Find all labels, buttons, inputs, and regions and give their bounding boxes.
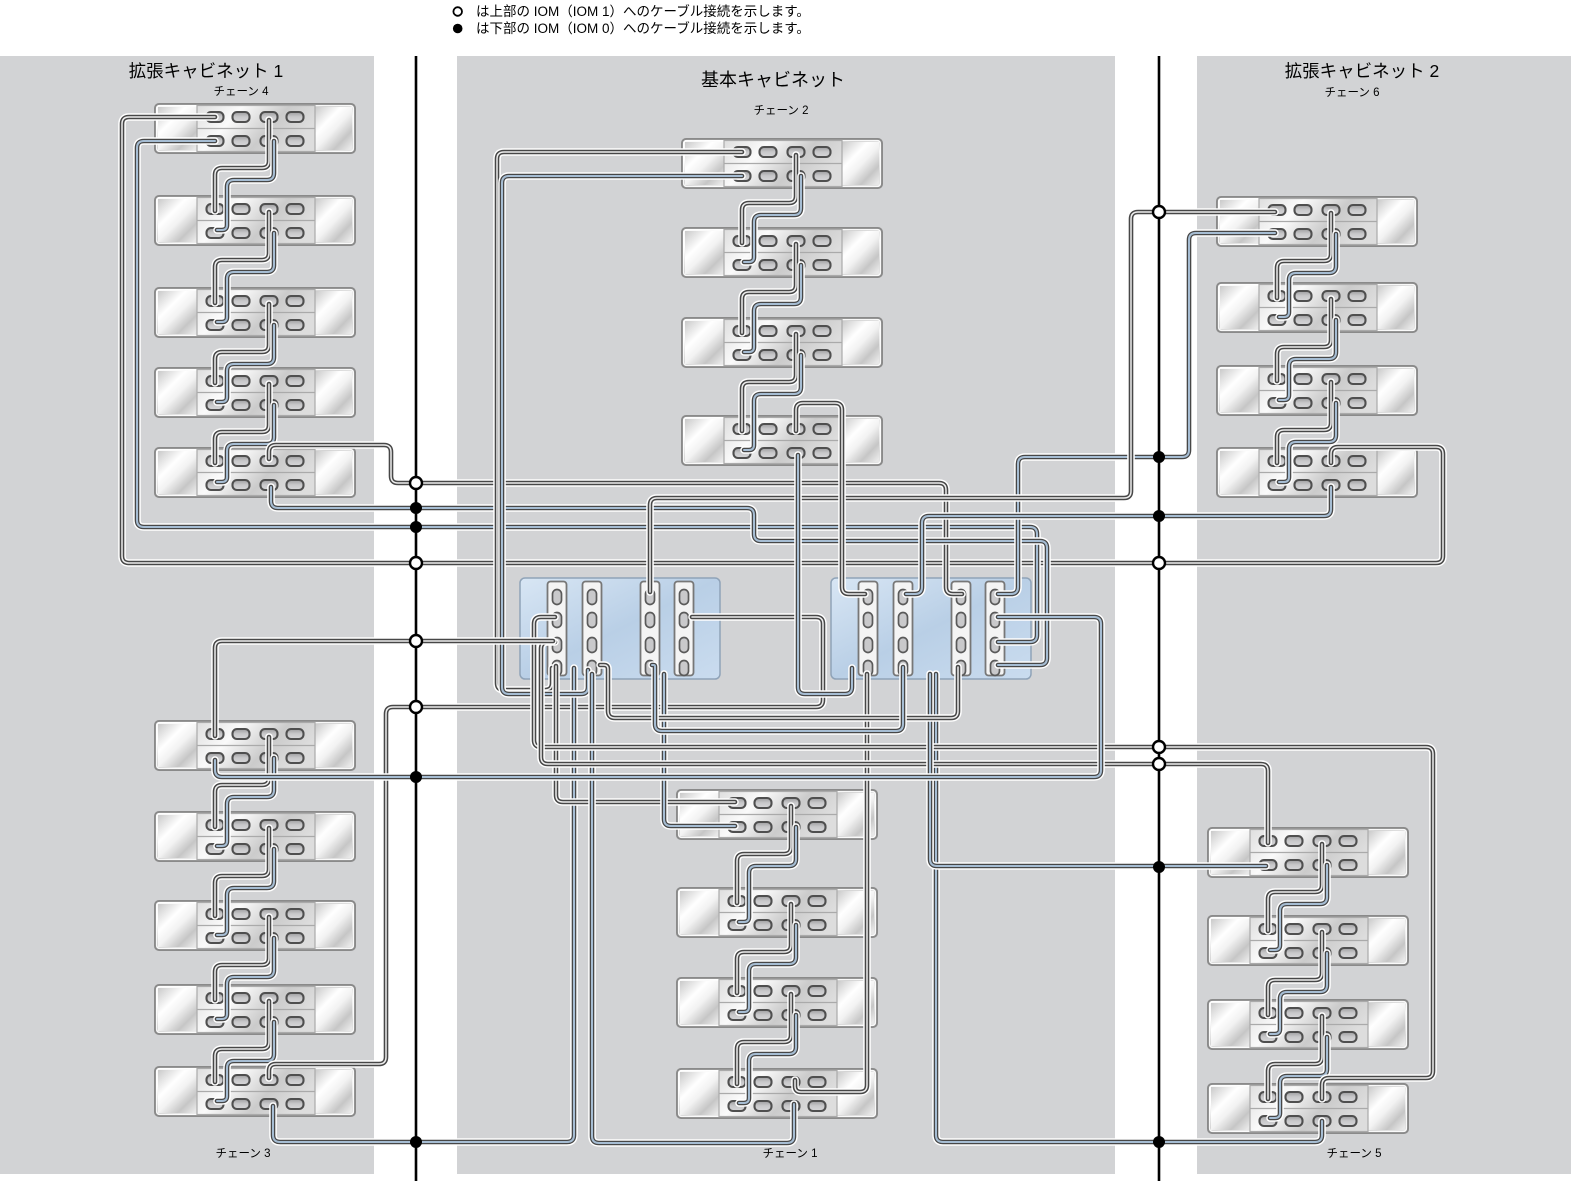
svg-text:チェーン 5: チェーン 5: [1326, 1147, 1381, 1160]
svg-text:チェーン 4: チェーン 4: [213, 85, 269, 98]
svg-text:チェーン 3: チェーン 3: [215, 1147, 270, 1160]
svg-text:は上部の IOM（IOM 1）へのケーブル接続を示します。: は上部の IOM（IOM 1）へのケーブル接続を示します。: [476, 3, 810, 19]
svg-text:は下部の IOM（IOM 0）へのケーブル接続を示します。: は下部の IOM（IOM 0）へのケーブル接続を示します。: [476, 20, 810, 36]
svg-text:チェーン 6: チェーン 6: [1324, 86, 1379, 99]
svg-text:チェーン 2: チェーン 2: [753, 104, 808, 117]
svg-text:拡張キャビネット 2: 拡張キャビネット 2: [1285, 61, 1440, 81]
svg-text:基本キャビネット: 基本キャビネット: [701, 70, 845, 90]
svg-text:拡張キャビネット 1: 拡張キャビネット 1: [129, 61, 284, 81]
svg-text:チェーン 1: チェーン 1: [762, 1147, 817, 1160]
